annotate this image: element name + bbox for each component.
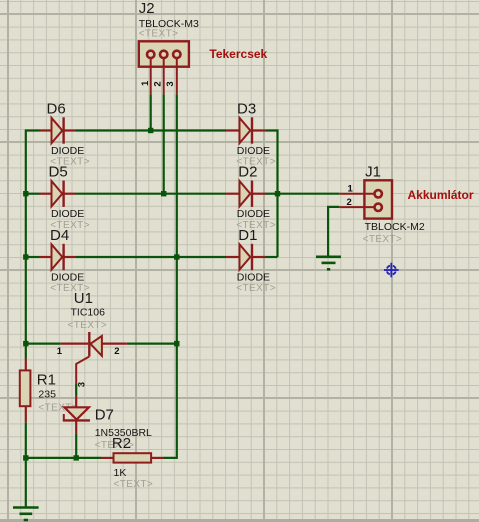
svg-text:D5: D5 [49, 164, 68, 181]
svg-text:<TEXT>: <TEXT> [363, 234, 403, 245]
wire U1 gate segment [75, 383, 77, 395]
connector J1 TBLOCK-M2 [339, 180, 392, 218]
wire U1 anode left [26, 343, 61, 345]
svg-text:D1: D1 [238, 227, 257, 244]
svg-text:DIODE: DIODE [51, 208, 84, 220]
node J2 pin1 / row1 [148, 128, 153, 133]
svg-text:<TEXT>: <TEXT> [114, 479, 154, 490]
node right bus / J1 pin1 [275, 191, 280, 196]
node left bus / row3 [23, 254, 28, 259]
svg-text:2: 2 [114, 346, 119, 357]
svg-text:Tekercsek: Tekercsek [209, 47, 267, 61]
node D7 / bottom rail [74, 455, 79, 460]
svg-text:U1: U1 [74, 290, 93, 307]
svg-text:R1: R1 [37, 371, 56, 388]
svg-text:235: 235 [38, 389, 56, 401]
svg-text:R2: R2 [112, 435, 131, 452]
wire J1 pin1 [278, 193, 340, 195]
resistor R2 [101, 453, 164, 462]
svg-text:3: 3 [165, 81, 176, 86]
svg-text:DIODE: DIODE [237, 208, 270, 220]
diode D2 [226, 181, 266, 207]
svg-text:TBLOCK-M2: TBLOCK-M2 [365, 221, 425, 233]
zener diode D7 [63, 395, 90, 434]
svg-text:DIODE: DIODE [51, 145, 84, 157]
svg-text:2: 2 [347, 197, 352, 208]
node left bus / U1 anode [23, 341, 28, 346]
svg-text:D3: D3 [237, 100, 256, 117]
svg-text:DIODE: DIODE [237, 145, 270, 157]
diode D3 [226, 117, 266, 143]
svg-text:1K: 1K [114, 467, 127, 479]
svg-text:D7: D7 [95, 407, 114, 424]
wire J1 pin2 to ground [328, 207, 339, 257]
wire J2 pin3 drop long vertical to R2 [164, 94, 177, 458]
node left bus / row2 [23, 191, 28, 196]
origin marker [384, 263, 399, 278]
svg-text:D4: D4 [50, 227, 69, 244]
diode D4 [40, 244, 77, 270]
svg-text:2: 2 [153, 81, 164, 86]
diode D1 [226, 244, 266, 270]
svg-text:DIODE: DIODE [51, 271, 84, 283]
svg-text:TIC106: TIC106 [71, 307, 106, 319]
node left bus / bottom rail [23, 455, 28, 460]
ground bottom left [13, 508, 39, 521]
svg-text:D6: D6 [47, 100, 66, 117]
svg-text:<TEXT>: <TEXT> [139, 29, 179, 40]
svg-text:<TEXT>: <TEXT> [68, 320, 108, 331]
connector J2 TBLOCK-M3 [139, 41, 189, 94]
wire row1 right to bus [266, 131, 278, 258]
svg-text:1: 1 [348, 184, 354, 195]
wire R1 bottom to ground [25, 422, 27, 507]
svg-text:1: 1 [140, 80, 151, 86]
svg-text:D2: D2 [238, 164, 257, 181]
wire D7 bottom [75, 434, 77, 458]
svg-text:J2: J2 [139, 0, 155, 17]
node J2 pin2 / row2 [161, 191, 166, 196]
wire row2 right [266, 193, 278, 195]
svg-text:DIODE: DIODE [237, 271, 270, 283]
thyristor U1 TIC106 [61, 332, 127, 383]
svg-text:Akkumlátor: Akkumlátor [408, 188, 474, 202]
svg-text:3: 3 [77, 382, 88, 387]
wire J2 pin1 drop [150, 94, 152, 130]
wire bottom rail [26, 457, 101, 459]
resistor R1 [20, 359, 31, 423]
wire row2 left [26, 193, 40, 195]
wire J2 pin2 drop [163, 94, 165, 193]
wire left bus vertical [26, 131, 40, 359]
wire U1 right to vertical [127, 343, 177, 345]
wire row3 right [266, 256, 278, 258]
diode D6 [40, 117, 77, 143]
wire row3 left [26, 256, 40, 258]
wire row1 middle [76, 129, 226, 131]
wire row2 middle [76, 193, 226, 195]
svg-text:<TEXT>: <TEXT> [236, 283, 276, 294]
node J2 pin3 / row3 [174, 254, 179, 259]
svg-text:1: 1 [57, 346, 63, 357]
svg-text:J1: J1 [365, 164, 381, 181]
wire row3 middle [76, 256, 226, 258]
diode D5 [40, 181, 77, 207]
node U1 cathode wire / vertical [174, 341, 179, 346]
ground at J1 pin2 [316, 257, 341, 270]
